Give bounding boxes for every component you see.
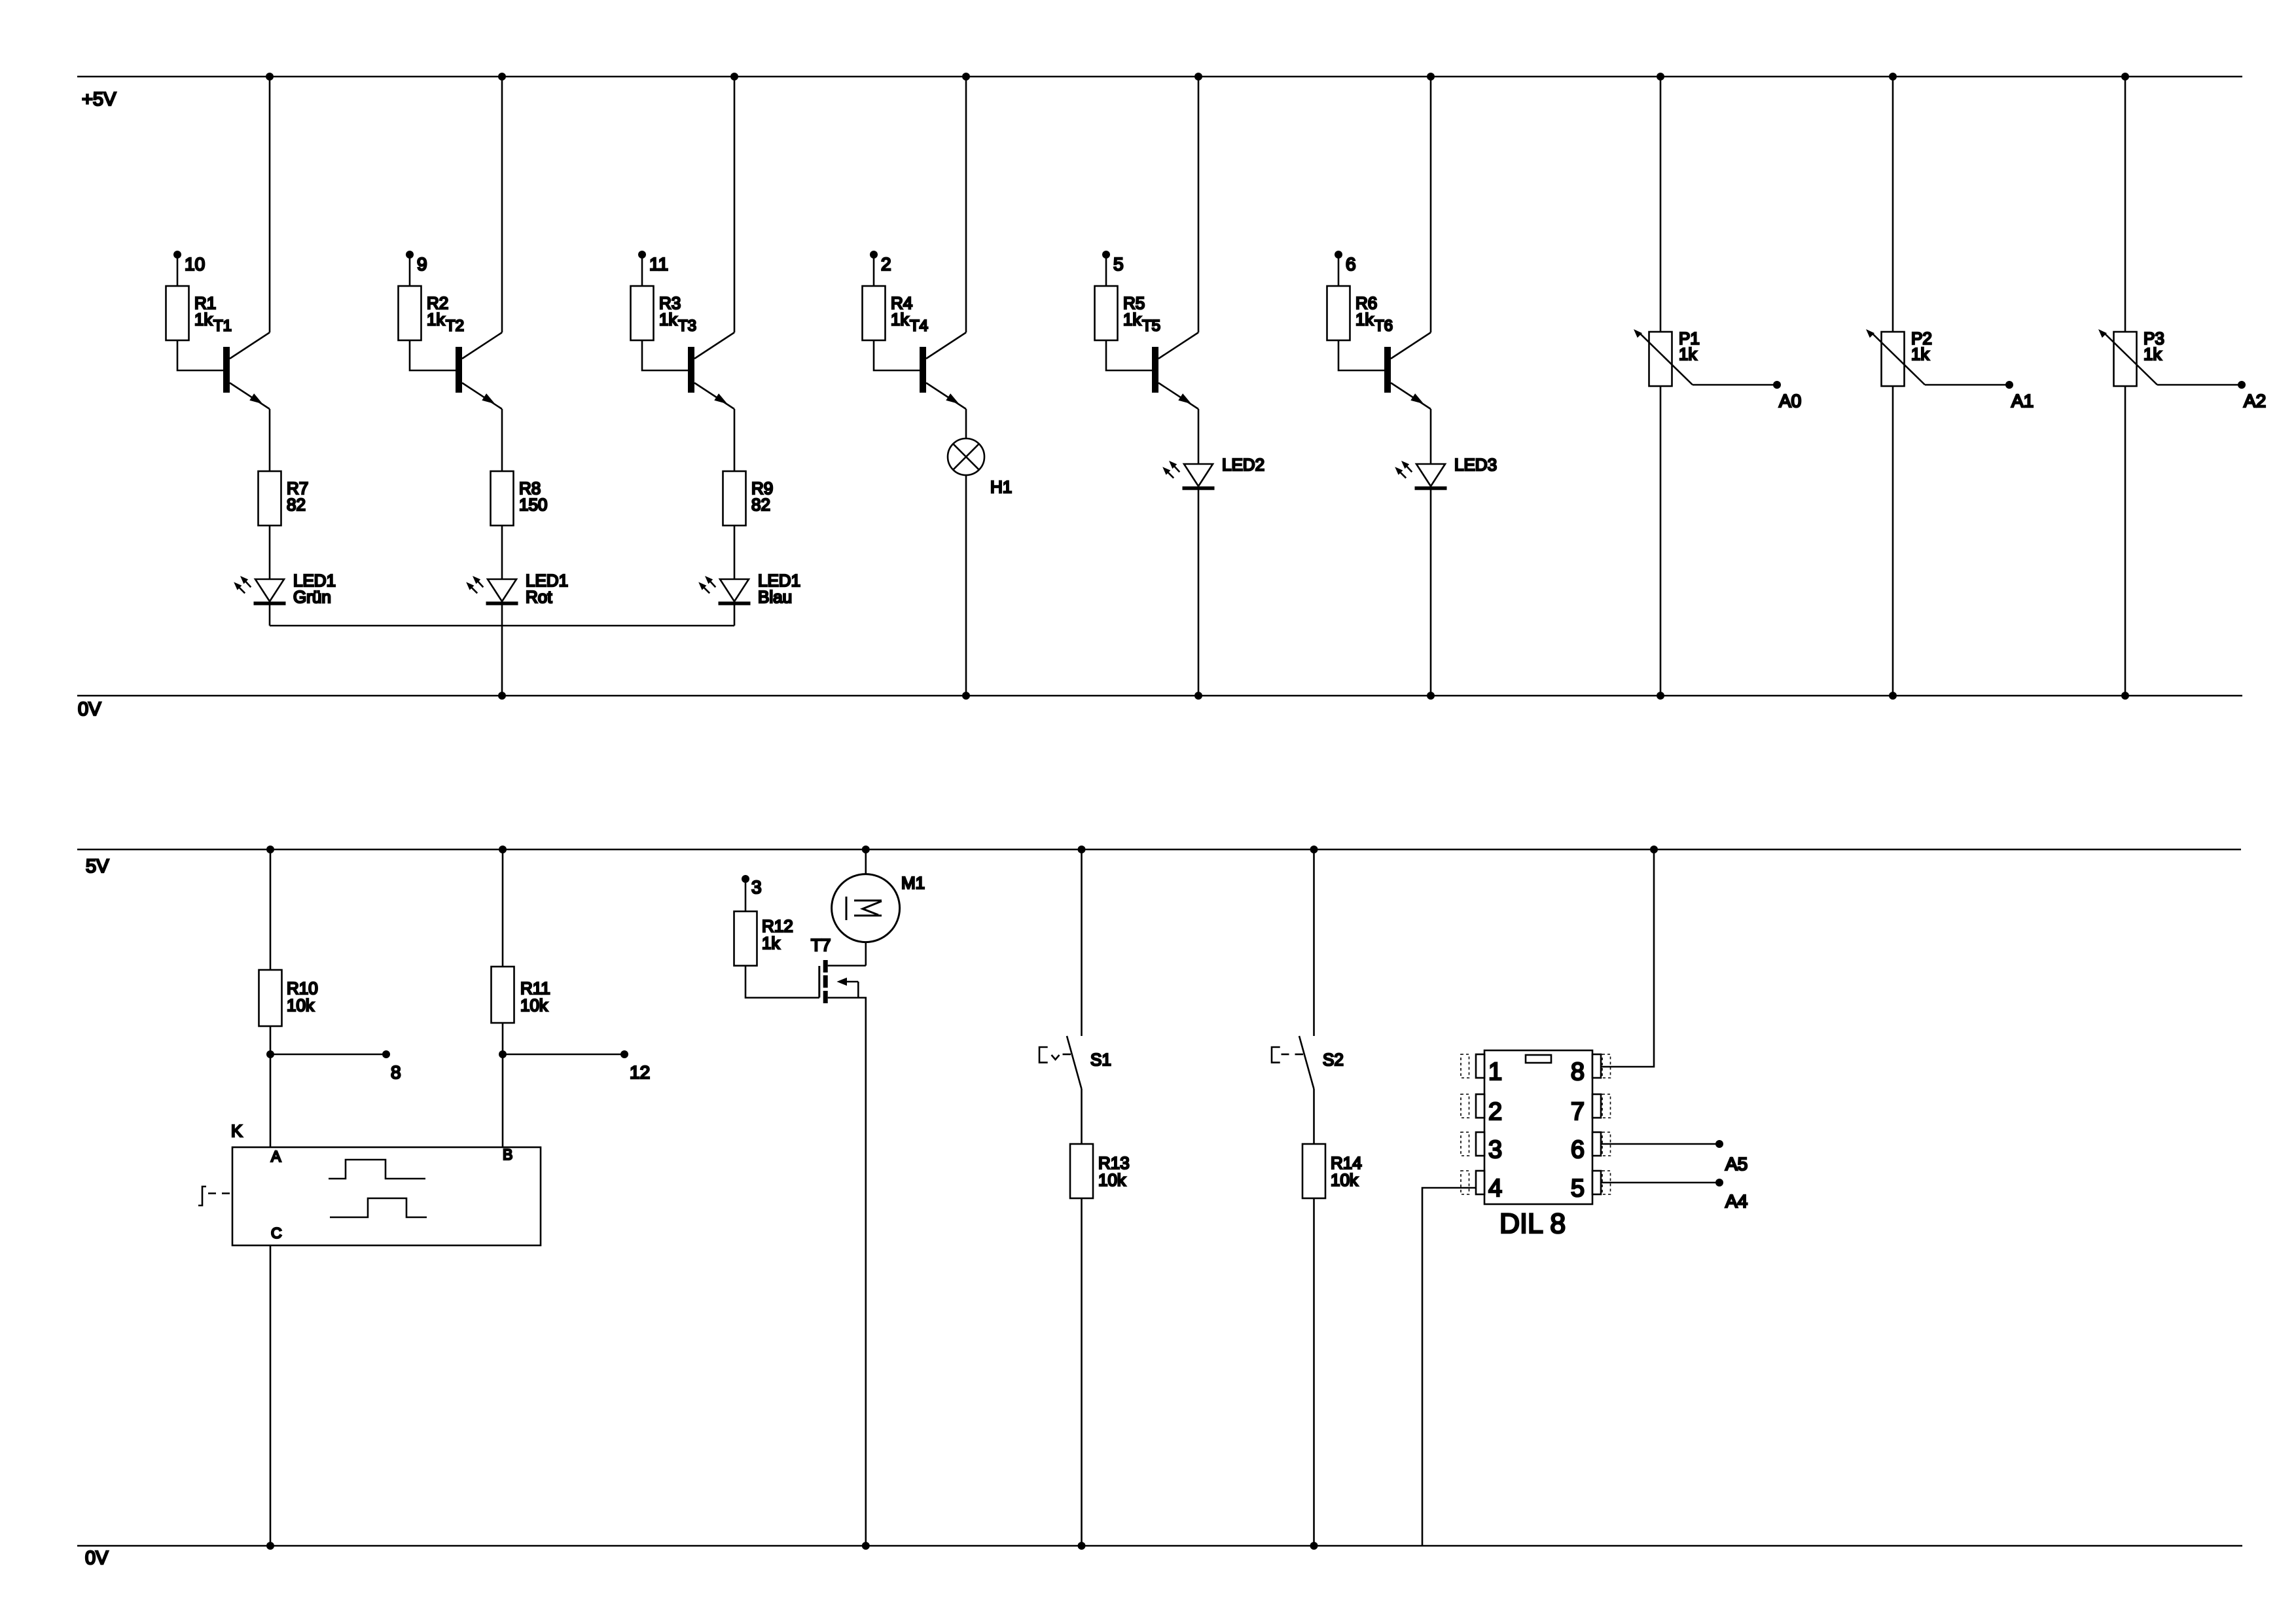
svg-text:7: 7 [1571, 1098, 1585, 1126]
svg-text:0V: 0V [78, 699, 101, 720]
svg-text:6: 6 [1346, 254, 1356, 274]
wire R7 to LED1 Grün [269, 526, 271, 579]
svg-text:S1: S1 [1090, 1050, 1111, 1069]
wire DIL8 pin 6 to A5 [1601, 1143, 1719, 1145]
svg-text:C: C [271, 1224, 282, 1241]
svg-text:B: B [503, 1146, 512, 1163]
node 10 terminal [173, 251, 181, 259]
potentiometer P2 [1882, 332, 1905, 386]
junction 0V rail / P1 [1657, 692, 1664, 700]
wire P2 wiper to A1 [1925, 384, 2009, 386]
wire collector T5 to +5V [1198, 77, 1200, 332]
resistor R11 [492, 967, 514, 1023]
K clock dashed wire [208, 1192, 232, 1194]
junction +5V rail / P3 [2121, 73, 2129, 80]
junction 5V rail / R11 [499, 846, 507, 853]
junction 0V rail / LED3 [1427, 692, 1435, 700]
LED LED1 Grün [255, 579, 284, 601]
svg-text:3: 3 [751, 877, 762, 897]
svg-text:82: 82 [287, 495, 306, 514]
resistor R3 [631, 286, 654, 340]
wire collector T2 to +5V [501, 77, 503, 332]
junction 0V rail / P3 [2121, 692, 2129, 700]
wire R11 to K pin B [502, 1023, 504, 1147]
wire DIL8 pin 4 to 0V [1422, 1188, 1476, 1546]
switch S1 [1067, 1036, 1082, 1089]
junction 5V rail / M1 [862, 846, 870, 853]
svg-text:8: 8 [1571, 1058, 1585, 1086]
wire node 6 to R6 [1338, 255, 1340, 286]
svg-text:T1: T1 [213, 317, 232, 335]
K waveform B [330, 1198, 427, 1217]
svg-text:5V: 5V [86, 856, 109, 877]
svg-text:12: 12 [630, 1062, 650, 1082]
svg-text:T4: T4 [910, 317, 928, 335]
wire emitter T1 to R7 [269, 409, 271, 471]
wire collector T1 to +5V [269, 77, 271, 332]
junction +5V rail / T6 collector [1427, 73, 1435, 80]
junction 0V rail / LED1 return [498, 692, 506, 700]
transistor T3 [688, 347, 694, 393]
svg-text:150: 150 [519, 495, 547, 514]
wire K pin C to 0V [270, 1245, 272, 1546]
svg-text:LED2: LED2 [1222, 455, 1265, 474]
resistor R9 [723, 471, 746, 526]
resistor R1 [166, 286, 189, 340]
DIL8 pin 5 [1592, 1171, 1601, 1194]
svg-text:0V: 0V [85, 1548, 109, 1569]
svg-text:10k: 10k [1098, 1170, 1126, 1190]
node A2 terminal [2238, 381, 2246, 389]
wire R2 to base of T2 [410, 340, 456, 370]
wire node 10 to R1 [177, 255, 179, 286]
+5V rail [77, 76, 2242, 78]
transistor T2 [456, 347, 462, 393]
wire S1 to R13 [1081, 1089, 1083, 1144]
junction 5V rail / DIL8 pin 8 [1650, 846, 1658, 853]
wire R6 to base of T6 [1338, 340, 1384, 370]
wire emitter T5 to LED2 [1198, 409, 1200, 464]
junction 5V rail / R10 [266, 846, 274, 853]
wire 5V to R10 [270, 849, 272, 970]
wire collector T4 to +5V [965, 77, 967, 332]
wire R8 to LED1 Rot [501, 526, 503, 579]
junction +5V rail / P1 [1657, 73, 1664, 80]
svg-text:K: K [231, 1121, 243, 1141]
svg-text:1k: 1k [427, 310, 445, 329]
transistor T1 [223, 347, 230, 393]
wire LED1 Blau cathode [734, 603, 736, 626]
svg-text:1: 1 [1488, 1058, 1502, 1086]
node 11 terminal [638, 251, 646, 259]
wire R4 to base of T4 [874, 340, 920, 370]
svg-text:1k: 1k [1911, 344, 1929, 364]
wire emitter T2 to R8 [501, 409, 503, 471]
wire to node 8 [270, 1054, 386, 1056]
DIL8 pin 7 [1592, 1094, 1601, 1118]
wire P2 to 0V [1892, 386, 1894, 696]
svg-text:10: 10 [185, 254, 205, 274]
svg-text:1k: 1k [1355, 310, 1374, 329]
transistor T4 [920, 347, 926, 393]
svg-text:A5: A5 [1725, 1154, 1748, 1174]
wire LED1 common return [270, 625, 734, 627]
wire R1 to base of T1 [177, 340, 223, 370]
svg-text:1k: 1k [194, 310, 213, 329]
junction 5V rail / S2 [1310, 846, 1318, 853]
junction 0V rail / P2 [1889, 692, 1897, 700]
motor M1 [832, 874, 900, 942]
wire node 2 to R4 [873, 255, 875, 286]
node 5 terminal [1102, 251, 1110, 259]
svg-text:H1: H1 [990, 477, 1012, 497]
wire drain to motor M1 [865, 942, 867, 966]
DIL8 pin 1 [1476, 1054, 1484, 1078]
0V rail (top section) [77, 695, 2242, 697]
node 2 terminal [870, 251, 878, 259]
junction 0V rail / R13 [1078, 1542, 1086, 1550]
wire collector T6 to +5V [1430, 77, 1432, 332]
junction +5V rail / T4 collector [962, 73, 970, 80]
svg-text:A2: A2 [2244, 391, 2266, 411]
DIL8 pin 6 [1592, 1132, 1601, 1156]
svg-text:9: 9 [417, 254, 427, 274]
lamp H1 [948, 438, 984, 475]
resistor R5 [1095, 286, 1118, 340]
node 12 terminal [620, 1050, 628, 1058]
transistor T6 [1384, 347, 1391, 393]
svg-text:A0: A0 [1779, 391, 1801, 411]
LED LED1 Blau [720, 579, 749, 601]
resistor R13 [1070, 1144, 1093, 1198]
DIL8 pin 2 [1476, 1094, 1484, 1118]
junction +5V rail / P2 [1889, 73, 1897, 80]
node 9 terminal [406, 251, 414, 259]
junction 0V rail / K pin C [266, 1542, 274, 1550]
svg-text:T5: T5 [1142, 317, 1160, 335]
DIL8 pin 4 [1476, 1171, 1484, 1194]
svg-text:2: 2 [1488, 1098, 1502, 1126]
svg-text:T3: T3 [678, 317, 696, 335]
svg-text:A: A [271, 1148, 281, 1165]
0V rail (bottom section) [77, 1545, 2242, 1547]
svg-text:T6: T6 [1374, 317, 1393, 335]
wire R14 to 0V [1313, 1198, 1315, 1546]
wire R12 to gate of T7 [745, 966, 819, 998]
5V rail (bottom section) [77, 849, 2241, 851]
resistor R6 [1327, 286, 1350, 340]
svg-text:8: 8 [391, 1062, 401, 1082]
wire node 11 to R3 [641, 255, 643, 286]
DIL8 pin 3 [1476, 1132, 1484, 1156]
wire lamp H1 to 0V [965, 475, 967, 696]
wire P1 wiper to A0 [1693, 384, 1777, 386]
svg-text:DIL 8: DIL 8 [1499, 1208, 1566, 1240]
wire P1 to 0V [1660, 386, 1662, 696]
transistor T5 [1152, 347, 1158, 393]
svg-text:T7: T7 [811, 935, 831, 955]
svg-text:10k: 10k [287, 995, 315, 1015]
wire 5V to motor M1 [865, 849, 867, 874]
svg-text:LED3: LED3 [1454, 455, 1497, 474]
wire +5V to P1 [1660, 77, 1662, 332]
svg-text:6: 6 [1571, 1136, 1585, 1164]
potentiometer P1 [1649, 332, 1672, 386]
junction +5V rail / T1 collector [266, 73, 274, 80]
wire LED1 Grün cathode [269, 603, 271, 626]
svg-text:1k: 1k [2144, 344, 2162, 364]
wire emitter T3 to R9 [734, 409, 736, 471]
DIL8 pin 8 [1592, 1054, 1601, 1078]
MOSFET T7 [818, 966, 820, 997]
resistor R7 [259, 471, 281, 526]
wire node 3 to R12 [745, 879, 747, 912]
wire to node 12 [503, 1054, 624, 1056]
junction 0V rail / R14 [1310, 1542, 1318, 1550]
wire node 5 to R5 [1105, 255, 1107, 286]
junction 0V rail / H1 [962, 692, 970, 700]
resistor R14 [1302, 1144, 1325, 1198]
svg-text:11: 11 [649, 254, 668, 274]
svg-text:10k: 10k [520, 995, 548, 1015]
junction R10 / node 8 [266, 1050, 274, 1058]
svg-text:5: 5 [1113, 254, 1124, 274]
node A4 terminal [1715, 1179, 1723, 1186]
K waveform A [329, 1160, 425, 1179]
svg-text:Blau: Blau [758, 587, 792, 607]
wire emitter T6 to LED3 [1430, 409, 1432, 464]
wire R3 to base of T3 [642, 340, 688, 370]
wire R5 to base of T5 [1106, 340, 1152, 370]
resistor R8 [491, 471, 514, 526]
svg-text:1k: 1k [891, 310, 909, 329]
node 3 terminal [742, 875, 749, 883]
junction +5V rail / T3 collector [730, 73, 738, 80]
wire +5V to P3 [2125, 77, 2126, 332]
wire LED1 Rot cathode [501, 603, 503, 626]
node A0 terminal [1773, 381, 1781, 389]
K clock input symbol [198, 1186, 206, 1205]
junction 0V rail / LED2 [1194, 692, 1202, 700]
wire P3 to 0V [2125, 386, 2126, 696]
LED LED1 Rot [488, 579, 516, 601]
wire collector T3 to +5V [734, 77, 736, 332]
junction 0V rail / T7 source [862, 1542, 870, 1550]
svg-text:4: 4 [1488, 1175, 1502, 1202]
potentiometer P3 [2114, 332, 2137, 386]
svg-text:1k: 1k [762, 933, 780, 953]
encoder K box [232, 1147, 541, 1245]
node A1 terminal [2005, 381, 2013, 389]
wire DIL8 pin 8 to 5V [1601, 849, 1654, 1067]
svg-text:1k: 1k [659, 310, 677, 329]
wire 5V to switch S1 [1081, 849, 1083, 1036]
svg-text:S2: S2 [1323, 1050, 1344, 1069]
resistor R10 [259, 970, 282, 1026]
svg-text:2: 2 [881, 254, 891, 274]
svg-text:3: 3 [1488, 1136, 1502, 1164]
svg-text:Rot: Rot [526, 587, 552, 607]
svg-text:1k: 1k [1679, 344, 1697, 364]
wire T7 source to 0V [828, 998, 866, 1546]
wire R9 to LED1 Blau [734, 526, 736, 579]
wire LED1 common to 0V [501, 626, 503, 696]
switch S2 [1299, 1036, 1314, 1089]
wire S2 to R14 [1313, 1089, 1315, 1144]
LED LED2 [1184, 464, 1213, 486]
wire LED3 to 0V [1430, 488, 1432, 696]
wire P3 wiper to A2 [2157, 384, 2242, 386]
svg-text:A4: A4 [1725, 1191, 1748, 1211]
svg-text:A1: A1 [2011, 391, 2034, 411]
wire LED2 to 0V [1198, 488, 1200, 696]
IC U1 DIL 8 body [1484, 1050, 1592, 1204]
wire T7 drain [828, 965, 866, 967]
junction +5V rail / T2 collector [498, 73, 506, 80]
svg-text:10k: 10k [1331, 1170, 1359, 1190]
LED LED3 [1416, 464, 1445, 486]
wire 5V to switch S2 [1313, 849, 1315, 1036]
wire R10 to K pin A [270, 1026, 272, 1147]
svg-text:82: 82 [751, 495, 770, 514]
junction +5V rail / T5 collector [1194, 73, 1202, 80]
wire 5V to R11 [502, 849, 504, 967]
svg-text:1k: 1k [1123, 310, 1141, 329]
junction 5V rail / S1 [1078, 846, 1086, 853]
junction R11 / node 12 [499, 1050, 507, 1058]
svg-text:M1: M1 [901, 873, 925, 893]
wire emitter T4 to lamp H1 [965, 409, 967, 438]
wire +5V to P2 [1892, 77, 1894, 332]
resistor R2 [399, 286, 422, 340]
svg-text:T2: T2 [446, 317, 464, 335]
node 8 terminal [382, 1050, 390, 1058]
node A5 terminal [1715, 1140, 1723, 1148]
svg-text:+5V: +5V [82, 89, 117, 110]
resistor R12 [734, 912, 757, 966]
svg-text:Grün: Grün [293, 587, 331, 607]
wire R13 to 0V [1081, 1198, 1083, 1546]
wire node 9 to R2 [409, 255, 411, 286]
svg-text:5: 5 [1571, 1175, 1585, 1202]
node 6 terminal [1335, 251, 1342, 259]
wire DIL8 pin 5 to A4 [1601, 1182, 1719, 1184]
resistor R4 [863, 286, 886, 340]
